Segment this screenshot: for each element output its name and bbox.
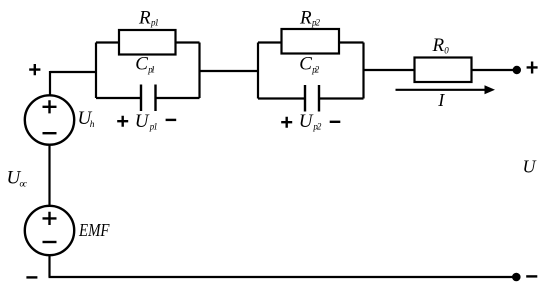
svg-text:p2: p2 [311,65,320,75]
svg-text:oc: oc [20,179,28,189]
svg-text:0: 0 [444,46,449,56]
svg-text:R: R [432,35,445,56]
svg-text:C: C [299,54,312,75]
svg-text:p1: p1 [150,18,159,28]
svg-text:U: U [299,111,314,132]
svg-text:R: R [299,8,312,29]
svg-text:EMF: EMF [78,220,110,240]
svg-text:U: U [523,157,537,177]
svg-text:R: R [138,8,151,29]
svg-text:p1: p1 [149,122,158,132]
svg-text:p2: p2 [311,18,321,28]
svg-text:I: I [437,90,445,110]
svg-text:C: C [135,54,148,75]
svg-text:p2: p2 [312,122,322,132]
svg-text:U: U [135,111,150,132]
svg-text:h: h [90,120,95,130]
svg-text:p1: p1 [147,65,155,75]
